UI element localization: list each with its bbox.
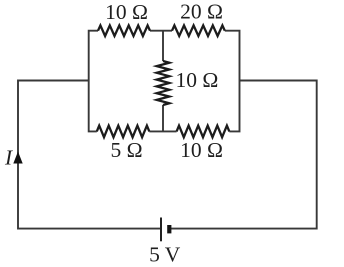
wire: right outer side from battery up to inner network — [170, 81, 317, 229]
resistor R3 10 ohm (middle vertical) — [157, 61, 170, 105]
resistor R5 10 ohm (bottom-right) — [177, 126, 230, 138]
battery V1 long plate (positive) — [160, 218, 162, 242]
resistor R1 10 ohm (top-left) — [98, 25, 150, 36]
svg-text:10 Ω: 10 Ω — [180, 138, 223, 162]
svg-text:20 Ω: 20 Ω — [180, 0, 223, 24]
svg-text:10 Ω: 10 Ω — [176, 68, 219, 92]
resistor R4 5 ohm (bottom-left) — [97, 126, 150, 138]
wire: left connection, left outer side down to battery — [18, 81, 160, 229]
svg-text:10 Ω: 10 Ω — [105, 0, 148, 24]
svg-text:5 Ω: 5 Ω — [110, 138, 142, 162]
wire: middle resistor bottom lead to bottom node — [162, 105, 164, 131]
node B: top-middle tee junction — [162, 31, 164, 61]
wire: inner-right vertical with top/bottom stubs — [225, 31, 240, 132]
svg-text:I: I — [4, 146, 13, 170]
wire: inner-left vertical with top/bottom stubs — [89, 31, 98, 132]
resistor R2 20 ohm (top-right) — [172, 25, 225, 36]
current arrow on left wire — [13, 152, 22, 164]
wire: bottom middle segment between 5-ohm and 10-ohm resistors — [149, 130, 176, 132]
wire: top middle segment between 10-ohm and 20-ohm resistors — [150, 30, 172, 32]
svg-text:5 V: 5 V — [149, 242, 181, 266]
battery V1 short plate (negative) — [167, 225, 171, 233]
